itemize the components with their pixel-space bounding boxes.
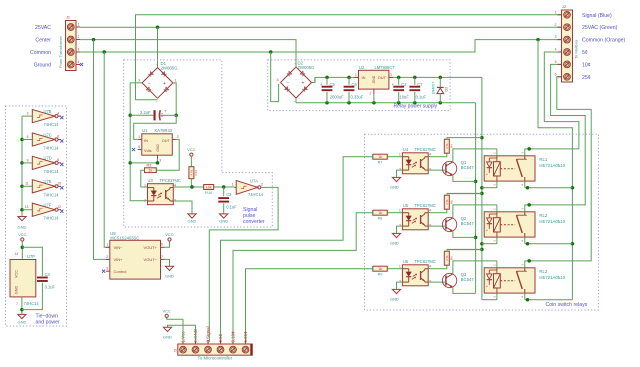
svg-text:0.33uF: 0.33uF [351,95,364,100]
svg-text:1: 1 [232,183,234,187]
svg-text:2000uF: 2000uF [330,95,344,100]
svg-text:3: 3 [27,112,29,116]
wire: 25 cent J2 pin6 to RL3 switch [525,77,591,263]
svg-text:Signal (Blue): Signal (Blue) [582,13,612,19]
connector J3 To Microcontroller [174,340,253,355]
wire: VCC to J3 pin1 [167,318,183,342]
svg-text:6.25¢: 6.25¢ [243,331,248,343]
svg-text:Vdis: Vdis [144,148,152,153]
svg-text:converter: converter [243,219,265,225]
svg-text:C4: C4 [45,272,51,277]
capacitor C3 0.1uF [218,187,237,214]
connector J1 From Transformer [58,16,80,71]
svg-text:U7E: U7E [44,179,52,184]
transistor Q1 BC547 [442,160,474,176]
svg-text:U7B: U7B [44,109,52,114]
resistor R10 10k [204,185,214,195]
svg-text:U7A: U7A [250,178,258,183]
wire: D1 left vertex to negative rail [128,83,147,201]
transistor Q2 BC547 [442,216,474,232]
svg-text:R10: R10 [205,191,212,195]
svg-text:Center: Center [35,38,51,44]
svg-text:74HC14: 74HC14 [24,301,40,306]
label 25VAC [35,25,51,31]
label 6.25¢ [243,331,248,343]
svg-text:+: + [163,81,166,87]
ground symbol U7P [17,314,26,324]
svg-text:U5: U5 [403,203,409,208]
svg-text:1k: 1k [378,267,382,271]
svg-text:25VAC: 25VAC [35,25,51,31]
VCC symbol for R12 [187,147,196,167]
svg-text:Ground: Ground [34,63,51,69]
svg-text:R8: R8 [378,217,383,221]
svg-text:25VAC (Green): 25VAC (Green) [582,25,618,31]
wire: RL3 contact to common rail [525,298,573,302]
wire: ch2 +5V rail [447,192,482,194]
voltage regulator U2 LM7805CT [355,65,396,103]
svg-text:2.2uF: 2.2uF [140,110,151,115]
optocoupler U5 TPC817MC [399,203,436,230]
wire: 5 cent J2 pin4 to RL1 switch [525,52,579,151]
svg-text:1: 1 [106,243,108,247]
wire: PSU ground rail [296,98,476,105]
wire: D1 right vertex to cap rail [173,83,178,117]
wire: U5 pin3 to Q2 base [428,225,446,227]
svg-text:1: 1 [399,265,401,269]
svg-text:−: − [287,81,290,87]
wire: J3 pin6 to R9 (25 cent drive) [246,269,373,342]
svg-text:5: 5 [555,60,557,64]
svg-text:+: + [302,81,305,87]
svg-text:2: 2 [144,199,146,203]
wire: +5V rail to R5 [447,193,482,195]
svg-text:10uF: 10uF [400,95,410,100]
label Center [35,38,51,44]
svg-text:J3: J3 [174,349,178,353]
svg-text:74HC14: 74HC14 [44,192,60,197]
wire: Q2 emitter to ground rail [453,231,476,237]
wire: Common J1 pin3 to J2 pin3, D2, U8 VIN- [80,38,562,247]
ground symbol U5 [390,233,401,245]
inverter U7C 74HC14 [22,132,63,150]
wire: Q1 collector to relay coil [453,149,497,162]
svg-text:From Transformer: From Transformer [58,35,63,68]
svg-text:GND: GND [390,297,399,302]
capacitor C4 0.1uF [22,247,56,309]
svg-text:8: 8 [57,158,59,162]
svg-text:J2: J2 [562,5,566,9]
wire: U5 pin4 to R5 [428,209,447,213]
svg-text:3: 3 [159,158,161,162]
label 3.Signal [206,326,211,342]
svg-text:3: 3 [277,78,279,82]
svg-text:5.10¢: 5.10¢ [231,331,236,343]
label Signal (Blue) [582,13,612,19]
label 5¢ [582,50,588,56]
svg-text:+: + [165,109,168,114]
ground symbol C3 [219,214,228,224]
svg-text:3: 3 [78,47,80,51]
svg-text:+: + [320,82,323,87]
svg-text:BC547: BC547 [461,277,475,282]
svg-text:C7: C7 [417,82,423,87]
svg-text:HE721A0510: HE721A0510 [539,275,565,280]
label 4.5¢ [218,333,223,342]
svg-text:MCS1S2403SC: MCS1S2403SC [110,236,139,241]
wire: +5V rail to R4 [447,137,482,139]
svg-text:VCC: VCC [18,232,27,237]
svg-text:0.1uF: 0.1uF [416,95,427,100]
relay RL1 HE721A0510 [484,152,565,186]
svg-text:13: 13 [25,205,29,209]
resistor R9 1k [373,266,403,276]
svg-text:HE721A0510: HE721A0510 [539,219,565,224]
wire: Center J1 pin2 to bridge D2 and U8 VIN+ [80,38,296,260]
svg-text:U7C: U7C [44,132,52,137]
svg-text:J1: J1 [66,16,70,20]
svg-text:3: 3 [390,73,392,77]
svg-text:12: 12 [57,205,61,209]
svg-text:RL1: RL1 [539,157,547,162]
svg-text:10¢: 10¢ [582,62,591,68]
svg-text:74HC14: 74HC14 [44,169,60,174]
no-connect X on U1 pin5 [132,148,135,151]
svg-text:RL2: RL2 [539,213,547,218]
wire: ch3 +5V rail [447,248,482,250]
wire: +5V rail to R6 [447,249,482,251]
capacitor C6 0.33uF [344,77,364,102]
inverter U7D 74HC14 [22,156,63,174]
svg-text:GND: GND [15,286,19,295]
svg-text:VIN−: VIN− [114,245,124,250]
svg-text:6: 6 [57,135,59,139]
svg-text:10k: 10k [206,186,212,190]
svg-text:−: − [148,81,151,87]
wire: R2 to U3 pin1 [141,170,148,187]
box Tie-down and power (dashed) [6,106,67,326]
wire: +5V to RL3 coil [482,299,497,301]
svg-text:1: 1 [138,135,140,139]
svg-text:IN: IN [144,138,148,143]
box Relay power supply (dashed) [268,60,450,111]
wire: U3 output node to R10 [173,185,234,189]
label 5.10¢ [231,331,236,343]
wire: Q3 collector to relay coil [453,261,497,274]
svg-text:IN: IN [362,75,366,80]
label Ground [34,63,51,69]
svg-text:U7D: U7D [44,156,52,161]
wire: U6 pin4 to R6 [428,265,447,269]
wire: Q2 collector to relay coil [453,205,497,218]
svg-text:3.Signal: 3.Signal [206,326,211,342]
label Common [30,50,51,56]
VCC symbol J3 [162,308,171,317]
box Coin switch relays (dashed) [365,134,599,310]
voltage regulator U1 KA78R33 [138,128,179,162]
svg-text:D3: D3 [444,87,448,92]
wire: +5V to RL1 coil [482,187,497,189]
ground symbol J3 [163,327,172,339]
inverter U7A 74HC14 [232,178,264,197]
power part U7P 74HC14 with VCC/GND [10,232,39,314]
label 25VAC (Green) [582,25,618,31]
svg-text:1: 1 [355,73,357,77]
svg-text:HE721A0510: HE721A0510 [539,163,565,168]
svg-text:GND: GND [219,219,228,224]
svg-text:TPC817MC: TPC817MC [160,178,181,183]
box Signal pulse converter (dashed) [124,60,273,227]
wire: Signal net from bridge D1 to J2 pin1 (top) [136,15,562,100]
wire: U8 VOUT- to GND [165,259,175,278]
svg-text:BC547: BC547 [461,165,475,170]
wire: GND to J3 pin2 [168,325,196,342]
bridge rectifier D2 2W005G [277,61,316,104]
svg-text:GND: GND [165,274,174,279]
wire: relay RL3 pins [497,261,525,300]
svg-text:74HC14: 74HC14 [44,216,60,221]
svg-text:74HC14: 74HC14 [44,122,60,127]
svg-text:OUT: OUT [162,138,171,143]
svg-text:To Microcontroller: To Microcontroller [198,356,233,361]
wire: U4 pin3 to Q1 base [428,169,446,171]
svg-text:U4: U4 [403,147,409,152]
svg-text:VOUT+: VOUT+ [144,245,158,250]
svg-text:2: 2 [261,183,263,187]
svg-text:4: 4 [429,209,431,213]
svg-text:Relay power supply: Relay power supply [394,104,438,110]
svg-text:14: 14 [15,252,19,256]
wire: 10 cent J2 pin5 to RL2 switch [525,64,585,206]
svg-text:GND: GND [17,320,26,325]
svg-text:R12: R12 [194,170,198,176]
connector J2 To Mailbox [555,5,579,82]
wire: U4 pin2 to ground [397,170,403,177]
capacitor C5 2000uF [320,77,344,102]
svg-text:U1: U1 [142,128,148,133]
resistor R7 1k [373,154,403,164]
wire: +5V to relay section [480,77,484,299]
diode D3 1N4007 [431,77,448,102]
svg-text:VOUT−: VOUT− [144,257,158,262]
label Signal pulse converter [243,207,265,225]
no-connect X on J1 pin4 [80,63,83,66]
capacitor C2 10uF [392,77,410,102]
wire: RL2 contact to common rail [525,242,573,246]
svg-text:VCC: VCC [187,147,196,152]
wire: U6 pin2 to ground [397,282,403,289]
svg-text:9: 9 [27,158,29,162]
wire: D2 output to +5V rail with jog [312,76,482,83]
capacitor C7 0.1uF [409,77,426,102]
svg-text:GND: GND [156,143,160,151]
inverter U7B 74HC14 [22,109,63,127]
optocoupler U6 TPC817MC [399,259,436,286]
wire: U6 pin3 to Q3 base [428,281,446,283]
svg-text:10: 10 [57,182,61,186]
svg-text:1: 1 [78,22,80,26]
svg-text:GND: GND [188,219,197,224]
svg-text:VCC: VCC [15,270,19,278]
wire: capacitor rail [130,114,176,116]
svg-text:5: 5 [27,135,29,139]
wire: 25VAC J1 pin1 to J2 pin2 [80,25,562,67]
wire: Q3 emitter to ground rail [453,287,476,293]
bridge rectifier D1 2W005G [138,61,178,104]
svg-text:C2: C2 [401,82,407,87]
svg-text:R5: R5 [449,200,453,204]
wire: ch3 coil rail end [0,0,1,1]
svg-text:R7: R7 [378,161,383,165]
wire: RL1 contact to common rail [525,186,573,190]
svg-text:1k: 1k [149,169,153,173]
transistor Q3 BC547 [442,272,474,288]
wire: +5V to RL2 coil [482,243,497,245]
wire: U4 pin4 to R4 [428,153,447,157]
svg-text:VCC: VCC [162,308,171,313]
svg-text:4: 4 [555,48,557,52]
svg-text:U3: U3 [148,178,154,183]
svg-text:4: 4 [429,265,431,269]
svg-text:6: 6 [555,72,557,76]
svg-text:0.1uF: 0.1uF [226,205,237,210]
svg-text:4: 4 [78,60,80,64]
wire: relay RL2 pins [497,205,525,244]
svg-text:1: 1 [144,184,146,188]
svg-text:2W005G: 2W005G [298,65,316,70]
svg-text:GND: GND [372,75,376,83]
svg-text:1: 1 [399,153,401,157]
svg-text:TPC817MC: TPC817MC [414,203,435,208]
wire: relay RL1 pins [497,149,525,188]
svg-text:2: 2 [177,135,179,139]
wire: U1 OUT to R2 [156,139,179,170]
svg-text:7: 7 [16,302,18,306]
ground symbol U4 [390,177,401,189]
inverter U7F 74HC14 [22,203,63,221]
label Coin switch relays [546,302,588,308]
svg-text:1: 1 [399,209,401,213]
inverter U7E 74HC14 [22,179,63,197]
svg-text:0.1uF: 0.1uF [45,285,56,290]
wire: tie-down input rail to GND [20,116,24,216]
svg-text:VCC: VCC [165,232,174,237]
resistor R6 4.7k [444,250,453,266]
svg-text:2: 2 [369,92,371,96]
wire: J3 pin4 to R7 (5 cent drive) [221,157,373,342]
svg-text:TPC817MC: TPC817MC [414,147,435,152]
label Tie-down and power [36,314,60,326]
svg-text:U7P: U7P [27,254,35,259]
svg-text:1: 1 [555,10,557,14]
label To Microcontroller [198,356,233,361]
ground symbol U6 [390,289,401,301]
optocoupler U3 TPC817MC [144,178,181,205]
svg-text:GND: GND [390,241,399,246]
svg-text:2: 2 [78,35,80,39]
resistor R5 4.7k [444,194,453,210]
svg-text:1: 1 [175,78,177,82]
svg-text:C6: C6 [352,82,358,87]
svg-text:1k: 1k [378,155,382,159]
svg-text:GND: GND [18,225,27,230]
svg-text:74HC14: 74HC14 [248,192,264,197]
resistor R8 1k [373,210,403,220]
resistor R12 4.7k pull-up [189,167,198,187]
svg-text:and power: and power [36,320,60,326]
dc-dc converter U8 MCS1S2403SC [106,231,165,279]
label 25¢ [582,75,591,81]
capacitor C1 2.2uF polarized [140,109,167,121]
wire: Q1 emitter to ground rail [453,175,476,181]
svg-text:4: 4 [429,153,431,157]
svg-text:Coin switch relays: Coin switch relays [546,302,588,308]
svg-text:4.5¢: 4.5¢ [218,333,223,342]
svg-text:VIN+: VIN+ [114,257,124,262]
wire: U8 VOUT+ to VCC [165,232,174,247]
svg-text:3: 3 [138,78,140,82]
svg-text:R2: R2 [147,164,152,168]
svg-text:2W005G: 2W005G [161,66,179,71]
svg-text:1k: 1k [378,211,382,215]
label 10¢ [582,62,591,68]
svg-text:1N4007: 1N4007 [431,82,435,95]
svg-text:+: + [392,82,395,87]
optocoupler U4 TPC817MC [399,147,436,174]
svg-text:OUT: OUT [378,75,387,80]
ground symbol tie-down rail [18,217,27,230]
wire: Common (Orange) distribution to relay contacts [538,40,574,300]
ground symbol U3 [188,214,197,224]
svg-text:Control: Control [114,269,127,274]
svg-text:RL3: RL3 [539,269,547,274]
svg-text:TPC817MC: TPC817MC [414,259,435,264]
label 1.Vcc [181,331,186,343]
svg-text:U2: U2 [359,65,365,70]
no-connect X on U8 Control [102,270,105,273]
svg-text:2: 2 [555,23,557,27]
svg-text:11: 11 [25,182,29,186]
svg-text:R6: R6 [449,256,453,260]
wire: U3 pin3 to ground [173,201,192,214]
svg-text:74HC14: 74HC14 [44,146,60,151]
svg-text:BC547: BC547 [461,221,475,226]
svg-text:5¢: 5¢ [582,50,588,56]
wire: PSU ground down to transistor emitters [474,103,478,294]
svg-text:4: 4 [57,111,59,115]
wire: U5 pin2 to ground [397,226,403,233]
svg-text:5: 5 [138,145,140,149]
label 2.GND [193,328,198,343]
svg-text:To Mailbox: To Mailbox [574,40,579,59]
svg-text:C5: C5 [330,82,336,87]
svg-text:3: 3 [106,267,108,271]
svg-text:C1: C1 [160,113,164,117]
svg-text:3: 3 [555,35,557,39]
svg-text:2: 2 [106,255,108,259]
svg-text:U7F: U7F [44,203,52,208]
svg-text:KA78R33: KA78R33 [155,128,173,133]
svg-text:25¢: 25¢ [582,75,591,81]
svg-text:LM7805CT: LM7805CT [375,65,396,70]
svg-text:C3: C3 [226,192,232,197]
wire: U7A output signal to J3 pin3 [209,187,278,341]
svg-text:Common: Common [30,50,51,56]
svg-text:GND: GND [390,185,399,190]
label Relay power supply [394,104,438,110]
svg-text:U6: U6 [403,259,409,264]
wire: U1 GND to negative rail [130,159,159,164]
